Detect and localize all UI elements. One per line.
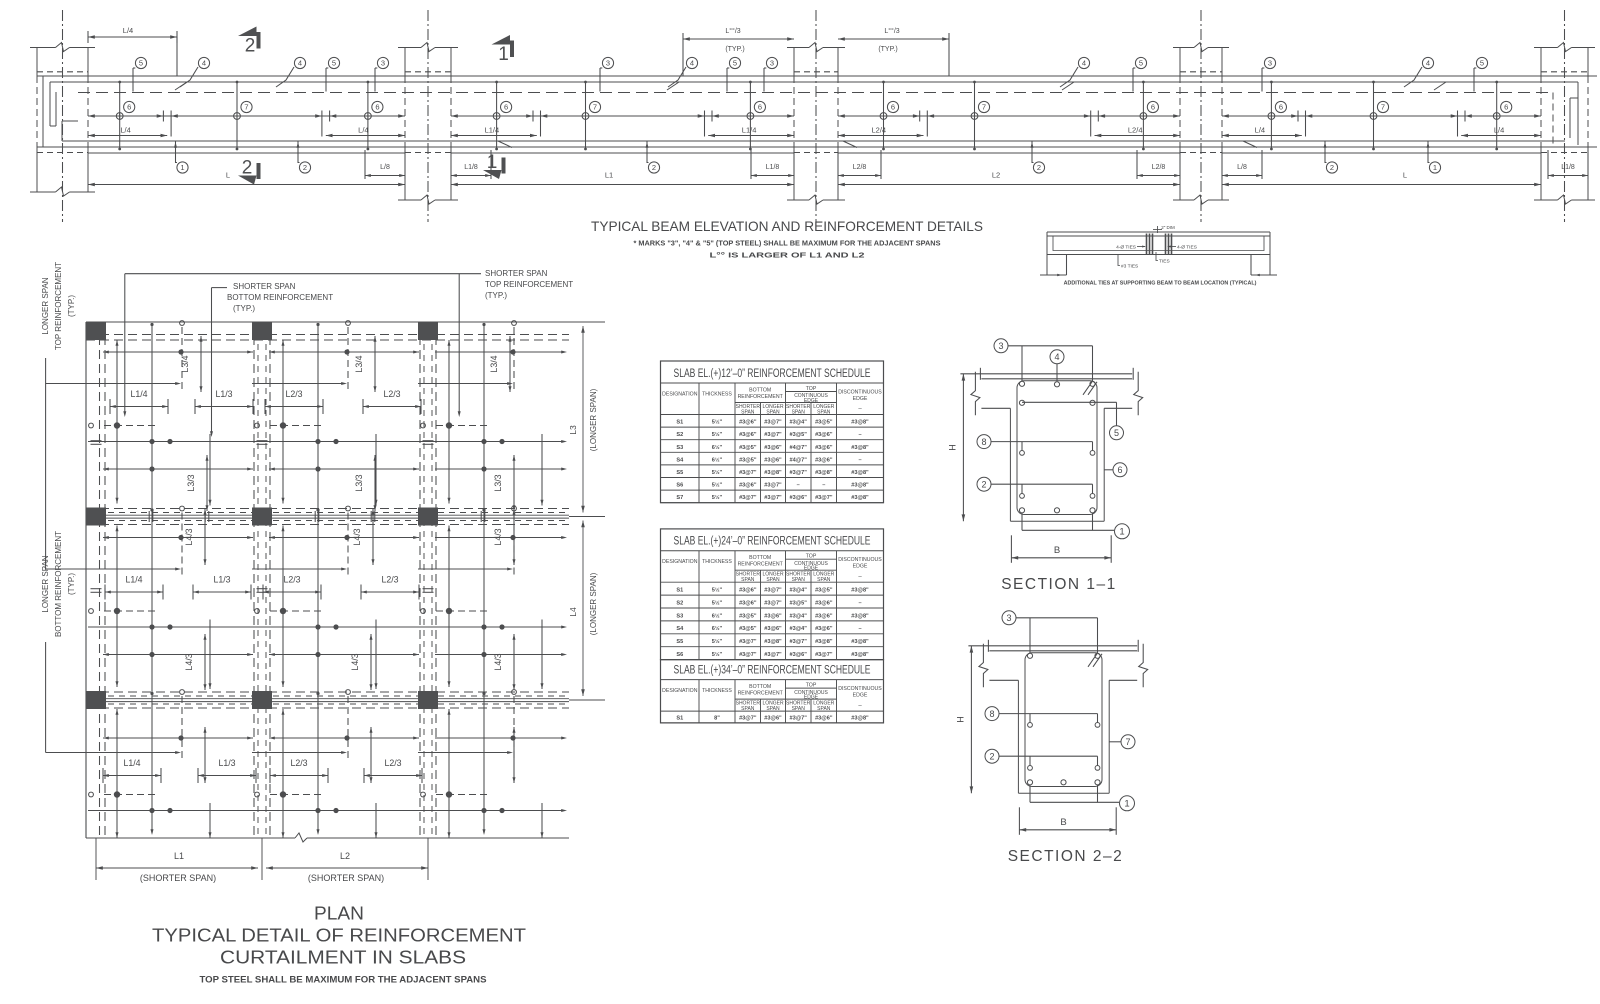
svg-text:1: 1 <box>180 163 184 172</box>
top corner bars <box>1027 653 1032 658</box>
svg-text:2: 2 <box>981 479 986 489</box>
svg-text:LONGER SPAN: LONGER SPAN <box>41 555 50 612</box>
svg-text:#3@4": #3@4" <box>789 626 807 632</box>
svg-text:(SHORTER SPAN): (SHORTER SPAN) <box>308 873 384 883</box>
svg-text:L3/3: L3/3 <box>186 474 196 491</box>
section cut 1 (top) <box>492 35 511 45</box>
svg-text:TOP: TOP <box>806 682 817 688</box>
svg-text:ADDITIONAL TIES AT SUPPORTING: ADDITIONAL TIES AT SUPPORTING BEAM TO BE… <box>1064 281 1257 287</box>
svg-text:L2/3: L2/3 <box>285 389 302 399</box>
top corner bars <box>1019 381 1024 386</box>
bay row2 col1 reinforcement <box>103 537 253 539</box>
svg-text:(TYP.): (TYP.) <box>485 291 507 300</box>
H dimension <box>970 646 972 793</box>
svg-text:L/8: L/8 <box>380 164 390 171</box>
svg-text:4: 4 <box>1426 59 1430 68</box>
svg-text:REINFORCEMENT: REINFORCEMENT <box>738 691 784 697</box>
svg-text:(TYP.): (TYP.) <box>878 46 897 53</box>
svg-text:#3@8": #3@8" <box>851 652 869 658</box>
svg-text:5½": 5½" <box>712 599 723 606</box>
dimension L1/8 at support <box>750 150 752 179</box>
svg-text:SPAN: SPAN <box>766 410 780 416</box>
dimension L**/3 (TYP.) span 3 <box>838 38 949 40</box>
svg-text:PLAN: PLAN <box>314 904 364 924</box>
svg-text:B: B <box>1054 545 1060 556</box>
svg-text:L4/3: L4/3 <box>184 653 194 670</box>
beam elevation: typical beam elevation and reinforcement details <box>30 10 1597 222</box>
bottom bar mark 2 callout <box>298 141 300 163</box>
bar mark 5 callout <box>1093 401 1117 403</box>
dimension L/8 at support <box>364 150 366 179</box>
svg-text:#3@6": #3@6" <box>815 432 833 438</box>
svg-text:5½": 5½" <box>712 587 723 594</box>
dimension L1/4 right <box>708 135 794 137</box>
svg-text:#3@4": #3@4" <box>789 588 807 594</box>
svg-text:SPAN: SPAN <box>741 410 755 416</box>
svg-text:CURTAILMENT IN SLABS: CURTAILMENT IN SLABS <box>220 948 466 968</box>
svg-text:BOTTOM: BOTTOM <box>749 555 771 561</box>
svg-text:L: L <box>1403 171 1407 180</box>
svg-text:7: 7 <box>982 103 986 112</box>
svg-text:L1: L1 <box>174 851 184 861</box>
plan of slab reinforcement curtailment <box>41 262 605 883</box>
bar mark 6 vertical, span 3 <box>883 82 885 149</box>
svg-text:2: 2 <box>1037 163 1041 172</box>
svg-text:(SHORTER SPAN): (SHORTER SPAN) <box>140 873 216 883</box>
bar mark 2 callout + bars <box>977 477 991 491</box>
svg-text:SPAN: SPAN <box>741 577 755 583</box>
bottom bars (mark 1) <box>1027 780 1032 785</box>
svg-text:4: 4 <box>690 59 694 68</box>
column grid line 3 (elevation) <box>815 10 817 222</box>
svg-text:SECTION 1–1: SECTION 1–1 <box>1001 576 1117 593</box>
top bar mark 3 callout <box>1261 68 1263 92</box>
column grid line 2 (elevation) <box>427 10 429 222</box>
bar mark 6 vertical, span 4 <box>1496 82 1498 149</box>
svg-text:L4/3: L4/3 <box>184 528 194 545</box>
svg-text:#3@5": #3@5" <box>739 445 757 451</box>
svg-text:#3@7": #3@7" <box>764 600 782 606</box>
svg-text:3: 3 <box>606 59 610 68</box>
continuous horizontal bars <box>88 441 565 443</box>
bar mark 6 vertical, span 1 <box>367 82 369 149</box>
bar mark 8 callout + skin bars <box>977 435 991 449</box>
svg-text:5: 5 <box>332 59 336 68</box>
svg-text:SHORTER SPAN: SHORTER SPAN <box>485 269 548 278</box>
svg-text:6: 6 <box>375 103 379 112</box>
bar anchor tick marks on gridlines <box>91 440 102 442</box>
dimension L1/8 at support <box>450 150 452 179</box>
svg-text:EDGE: EDGE <box>853 564 868 570</box>
svg-text:SLAB EL.(+)24’–0” REINFORCEM: SLAB EL.(+)24’–0” REINFORCEMENT SCHEDULE <box>674 536 871 548</box>
svg-text:–: – <box>858 457 861 463</box>
svg-text:#3@6": #3@6" <box>815 613 833 619</box>
bottom second-layer bar <box>88 152 405 154</box>
svg-text:SLAB EL.(+)12’–0” REINFORCEM: SLAB EL.(+)12’–0” REINFORCEMENT SCHEDULE <box>674 368 871 380</box>
svg-text:#3@7": #3@7" <box>764 483 782 489</box>
svg-text:#3@7": #3@7" <box>764 420 782 426</box>
svg-text:L/4: L/4 <box>1255 126 1265 135</box>
svg-text:L4: L4 <box>568 607 578 617</box>
svg-text:4: 4 <box>298 59 302 68</box>
svg-text:6: 6 <box>891 103 895 112</box>
beam outer faces <box>1009 408 1011 521</box>
column grid line 5 (elevation) <box>1564 10 1566 222</box>
svg-text:#3@8": #3@8" <box>851 445 869 451</box>
svg-text:#3@8": #3@8" <box>815 470 833 476</box>
svg-text:S3: S3 <box>676 445 683 451</box>
continuous vertical bars <box>151 324 153 833</box>
beam outer faces <box>1017 680 1019 793</box>
svg-text:#3@7": #3@7" <box>764 588 782 594</box>
svg-text:REINFORCEMENT: REINFORCEMENT <box>738 562 784 568</box>
svg-text:#3@8": #3@8" <box>851 470 869 476</box>
svg-text:#3@8": #3@8" <box>851 495 869 501</box>
beam end face left <box>42 76 44 147</box>
svg-text:BOTTOM REINFORCEMENT: BOTTOM REINFORCEMENT <box>54 531 63 637</box>
svg-text:5: 5 <box>733 59 737 68</box>
svg-text:S5: S5 <box>676 639 683 645</box>
bottom reinforcement bar <box>62 140 1565 142</box>
svg-text:TIES: TIES <box>1159 259 1170 265</box>
svg-text:2: 2 <box>1330 163 1334 172</box>
svg-text:#3@4": #3@4" <box>789 613 807 619</box>
svg-text:EDGE: EDGE <box>853 396 868 402</box>
svg-text:L1/4: L1/4 <box>742 126 757 135</box>
bottom bar mark 1 callout <box>1428 141 1430 163</box>
bottom bar mark 2 callout <box>1325 141 1327 163</box>
svg-text:L4/3: L4/3 <box>493 653 503 670</box>
column grid line 1 (elevation) <box>62 10 64 222</box>
span 2 dimension chain <box>451 115 794 117</box>
svg-text:3: 3 <box>1268 59 1272 68</box>
svg-text:L2: L2 <box>340 851 350 861</box>
section cut 2 (bottom) <box>238 176 257 185</box>
svg-text:EDGE: EDGE <box>853 693 868 699</box>
svg-text:(TYP.): (TYP.) <box>67 573 76 595</box>
svg-text:S4: S4 <box>676 457 684 463</box>
svg-text:L2/3: L2/3 <box>381 575 398 585</box>
svg-text:–: – <box>858 432 861 438</box>
svg-text:DESIGNATION: DESIGNATION <box>662 688 698 694</box>
span dimension L <box>1222 184 1541 186</box>
svg-text:3: 3 <box>998 341 1003 351</box>
top bar mark 4 callout <box>1060 67 1078 87</box>
table: slab el.(+)12-0 reinforcement schedule <box>661 361 884 503</box>
svg-text:5½": 5½" <box>712 469 723 476</box>
svg-text:7: 7 <box>1125 737 1130 747</box>
svg-text:L1/4: L1/4 <box>125 575 142 585</box>
svg-text:L1/8: L1/8 <box>1561 164 1575 171</box>
dimension L1/8 at support <box>1547 150 1549 179</box>
bar mark 6 vertical, span 2 <box>749 82 751 149</box>
svg-text:#3@5": #3@5" <box>739 457 757 463</box>
svg-text:L3/3: L3/3 <box>493 474 503 491</box>
svg-text:L3/4: L3/4 <box>489 355 499 372</box>
svg-text:* MARKS "3", "4" & "5" (TOP ST: * MARKS "3", "4" & "5" (TOP STEEL) SHALL… <box>634 239 941 248</box>
beam centrelines (double dashed) <box>86 334 569 336</box>
svg-text:L2/3: L2/3 <box>383 389 400 399</box>
dimension L/4 top left <box>88 36 177 38</box>
svg-text:#3@7": #3@7" <box>789 470 807 476</box>
svg-text:6: 6 <box>127 103 131 112</box>
svg-text:#3@7": #3@7" <box>739 652 757 658</box>
svg-text:L1/3: L1/3 <box>215 389 232 399</box>
svg-text:TOP REINFORCEMENT: TOP REINFORCEMENT <box>54 262 63 350</box>
svg-text:1: 1 <box>1433 163 1437 172</box>
svg-text:L2/8: L2/8 <box>853 164 867 171</box>
svg-text:#3@4": #3@4" <box>789 420 807 426</box>
svg-text:THICKNESS: THICKNESS <box>702 688 732 694</box>
svg-text:–: – <box>822 483 825 489</box>
svg-text:#3@7": #3@7" <box>764 495 782 501</box>
dimension L/4 left <box>88 135 167 137</box>
dimension L**/3 (TYP.) span 2 <box>683 38 794 40</box>
svg-text:7: 7 <box>593 103 597 112</box>
bar mark 7 vertical, span 3 <box>974 82 976 149</box>
tie spacing dim <box>1153 229 1162 231</box>
svg-text:L1/8: L1/8 <box>766 164 780 171</box>
svg-text:4: 4 <box>202 59 206 68</box>
svg-text:7: 7 <box>1381 103 1385 112</box>
svg-text:L3: L3 <box>568 425 578 435</box>
svg-text:#3@7": #3@7" <box>739 716 757 722</box>
svg-text:S2: S2 <box>676 432 683 438</box>
svg-text:5: 5 <box>139 59 143 68</box>
svg-text:S6: S6 <box>676 483 683 489</box>
svg-text:#3@8": #3@8" <box>851 588 869 594</box>
bottom bar mark 2 callout <box>1032 141 1034 163</box>
svg-text:SHORTER SPAN: SHORTER SPAN <box>233 282 296 291</box>
svg-text:#3@5": #3@5" <box>789 432 807 438</box>
svg-text:5½": 5½" <box>712 494 723 501</box>
top steel dashed line <box>78 92 1553 94</box>
svg-text:SLAB EL.(+)34’–0” REINFORCEM: SLAB EL.(+)34’–0” REINFORCEMENT SCHEDULE <box>674 665 871 677</box>
svg-text:BOTTOM: BOTTOM <box>749 684 771 690</box>
dimension L2/8 at support <box>837 150 839 179</box>
svg-text:L1/3: L1/3 <box>218 758 235 768</box>
svg-text:L2/8: L2/8 <box>1152 164 1166 171</box>
span dimension L <box>88 184 405 186</box>
bar mark 7 vertical, span 4 <box>1373 82 1375 149</box>
svg-text:DESIGNATION: DESIGNATION <box>662 392 698 398</box>
svg-text:S5: S5 <box>676 470 683 476</box>
svg-text:#3@6": #3@6" <box>764 626 782 632</box>
top bar mark 3 callout <box>763 68 765 92</box>
svg-text:BOTTOM REINFORCEMENT: BOTTOM REINFORCEMENT <box>227 293 333 302</box>
left end hook of bottom bar <box>61 121 63 141</box>
svg-text:#3@6": #3@6" <box>815 600 833 606</box>
svg-text:#3@8": #3@8" <box>851 639 869 645</box>
svg-text:5½": 5½" <box>712 651 723 658</box>
svg-text:#3@8": #3@8" <box>851 716 869 722</box>
svg-text:#3@7": #3@7" <box>764 652 782 658</box>
detail: additional ties at supporting beam <box>1040 225 1277 287</box>
svg-text:L3/3: L3/3 <box>354 474 364 491</box>
svg-text:H: H <box>947 444 957 451</box>
H dimension <box>962 374 964 521</box>
dimension L1 (shorter span) <box>95 838 97 880</box>
svg-text:#3@6": #3@6" <box>815 626 833 632</box>
bar mark 4 callout <box>1054 382 1059 387</box>
svg-text:#3@6": #3@6" <box>789 652 807 658</box>
slab flanges <box>981 378 1132 380</box>
section top extension line <box>960 373 1132 375</box>
svg-text:TYPICAL BEAM ELEVATION AND REI: TYPICAL BEAM ELEVATION AND REINFORCEMENT… <box>591 218 983 234</box>
svg-text:4-Ø TIES: 4-Ø TIES <box>1116 245 1136 251</box>
svg-text:L1/4: L1/4 <box>130 389 147 399</box>
svg-text:L/4: L/4 <box>123 26 133 35</box>
stirrup <box>1025 653 1102 787</box>
bay row3 col1 reinforcement <box>103 737 253 739</box>
svg-text:SPAN: SPAN <box>741 706 755 712</box>
dimension L3 (longer span) <box>569 321 605 323</box>
svg-text:S1: S1 <box>676 716 683 722</box>
svg-text:L1/3: L1/3 <box>213 575 230 585</box>
svg-text:5: 5 <box>1114 428 1119 438</box>
svg-text:1: 1 <box>487 152 498 173</box>
svg-text:6: 6 <box>758 103 762 112</box>
svg-text:5: 5 <box>1139 59 1143 68</box>
svg-text:#3@6": #3@6" <box>739 420 757 426</box>
beam top edge <box>37 75 1597 77</box>
svg-text:#3@6": #3@6" <box>739 600 757 606</box>
dimension L/4 right <box>326 135 405 137</box>
bay row3 col2 reinforcement <box>269 737 419 739</box>
slab boundary bottom with break <box>86 837 295 839</box>
svg-text:2: 2 <box>989 751 994 761</box>
svg-text:TOP STEEL SHALL BE MAXIMUM FOR: TOP STEEL SHALL BE MAXIMUM FOR THE ADJAC… <box>200 975 487 985</box>
bay row2 col2 reinforcement <box>269 537 419 539</box>
svg-text:5: 5 <box>1480 59 1484 68</box>
svg-text:THICKNESS: THICKNESS <box>702 559 732 565</box>
columns (filled) <box>86 322 106 340</box>
svg-text:#3@8": #3@8" <box>851 613 869 619</box>
svg-text:L2/4: L2/4 <box>1128 126 1143 135</box>
svg-text:L°°/3: L°°/3 <box>884 27 899 35</box>
svg-text:L3/4: L3/4 <box>180 355 190 372</box>
top reinforcement bar (continuous) <box>50 81 1578 83</box>
svg-text:5½": 5½" <box>712 419 723 426</box>
svg-text:#3@6": #3@6" <box>815 457 833 463</box>
table: slab el.(+)24-0 reinforcement schedule <box>661 529 884 660</box>
svg-text:L1/4: L1/4 <box>123 758 140 768</box>
svg-text:L1/8: L1/8 <box>464 164 478 171</box>
svg-text:SPAN: SPAN <box>817 410 831 416</box>
svg-text:8": 8" <box>714 716 720 722</box>
svg-text:6: 6 <box>1117 465 1122 475</box>
svg-text:L/4: L/4 <box>1494 126 1504 135</box>
svg-text:(LONGER SPAN): (LONGER SPAN) <box>589 572 598 635</box>
svg-text:4-Ø TIES: 4-Ø TIES <box>1177 245 1197 251</box>
svg-text:4: 4 <box>1054 352 1059 362</box>
svg-text:6: 6 <box>1279 103 1283 112</box>
svg-text:1: 1 <box>1124 799 1129 810</box>
bar mark 6 callout <box>1104 469 1112 471</box>
span 4 dimension chain <box>1222 115 1541 117</box>
top bar mark 4 callout <box>180 67 198 87</box>
dimension L2/4 right <box>1095 135 1181 137</box>
B dimension <box>1010 535 1012 563</box>
svg-text:#3@7": #3@7" <box>789 639 807 645</box>
dimension L2/8 at support <box>1136 150 1138 179</box>
svg-text:#3@7": #3@7" <box>789 716 807 722</box>
svg-text:#3@6": #3@6" <box>764 457 782 463</box>
svg-text:L: L <box>226 171 230 180</box>
svg-text:#3@7": #3@7" <box>764 432 782 438</box>
section top extension line <box>968 645 1137 647</box>
beam soffit <box>37 146 1597 148</box>
svg-text:L4/3: L4/3 <box>350 653 360 670</box>
span dimension L1 <box>451 184 794 186</box>
svg-text:DESIGNATION: DESIGNATION <box>662 559 698 565</box>
svg-text:#3@8": #3@8" <box>815 639 833 645</box>
svg-text:L1: L1 <box>605 171 613 180</box>
svg-text:THICKNESS: THICKNESS <box>702 392 732 398</box>
bay row1 col3 reinforcement <box>435 351 565 353</box>
dimension L/4 left <box>1222 135 1302 137</box>
svg-text:SPAN: SPAN <box>792 577 806 583</box>
svg-text:S1: S1 <box>676 420 683 426</box>
svg-text:L/4: L/4 <box>120 126 130 135</box>
table: slab el.(+)34-0 reinforcement schedule <box>661 660 884 723</box>
svg-text:LONGER SPAN: LONGER SPAN <box>41 277 50 334</box>
svg-text:3: 3 <box>381 59 385 68</box>
dimension L/4 right <box>1461 135 1541 137</box>
svg-text:#3@6": #3@6" <box>764 613 782 619</box>
svg-text:DISCONTINUOUS: DISCONTINUOUS <box>838 557 882 563</box>
svg-text:#3@8": #3@8" <box>851 420 869 426</box>
svg-text:5½": 5½" <box>712 638 723 645</box>
svg-text:#3@6": #3@6" <box>789 495 807 501</box>
svg-text:SPAN: SPAN <box>792 410 806 416</box>
bar mark 7 vertical, span 1 <box>236 82 238 149</box>
bar mark 7 vertical, span 2 <box>585 82 587 149</box>
svg-text:TYPICAL DETAIL OF REINFORCEMEN: TYPICAL DETAIL OF REINFORCEMENT <box>152 926 526 946</box>
svg-text:2: 2 <box>652 163 656 172</box>
svg-text:#3@6": #3@6" <box>764 445 782 451</box>
top bar mark 5 callout <box>726 68 728 92</box>
svg-text:2: 2 <box>242 158 253 179</box>
svg-text:6½": 6½" <box>712 444 723 451</box>
svg-text:L°°/3: L°°/3 <box>725 27 740 35</box>
second layer top bars (mark 5) <box>1022 401 1093 403</box>
svg-text:L4/3: L4/3 <box>352 528 362 545</box>
svg-text:#3@7": #3@7" <box>739 470 757 476</box>
svg-text:#4@7": #4@7" <box>789 457 807 463</box>
svg-text:7: 7 <box>244 103 248 112</box>
svg-text:–: – <box>858 600 861 606</box>
svg-text:S3: S3 <box>676 613 683 619</box>
svg-text:TOP REINFORCEMENT: TOP REINFORCEMENT <box>485 280 573 289</box>
tie groups <box>1146 234 1148 255</box>
svg-text:BOTTOM: BOTTOM <box>749 388 771 394</box>
slab boundary top <box>86 321 569 323</box>
section cut 2 (top) <box>238 27 257 37</box>
svg-text:#3@5": #3@5" <box>739 613 757 619</box>
svg-text:L2: L2 <box>992 171 1000 180</box>
top bar mark 5 callout <box>132 68 134 92</box>
top bar mark 4 callout <box>276 67 294 87</box>
svg-text:#3@6": #3@6" <box>815 716 833 722</box>
svg-text:SPAN: SPAN <box>817 577 831 583</box>
svg-text:5½": 5½" <box>712 431 723 438</box>
bar mark 6 vertical, span 1 <box>119 82 121 149</box>
svg-text:L°° IS LARGER OF L1 AND L2: L°° IS LARGER OF L1 AND L2 <box>710 251 865 260</box>
svg-text:#3@6": #3@6" <box>739 483 757 489</box>
bar mark 2 callout + bars <box>985 749 999 763</box>
svg-text:L4/3: L4/3 <box>493 528 503 545</box>
